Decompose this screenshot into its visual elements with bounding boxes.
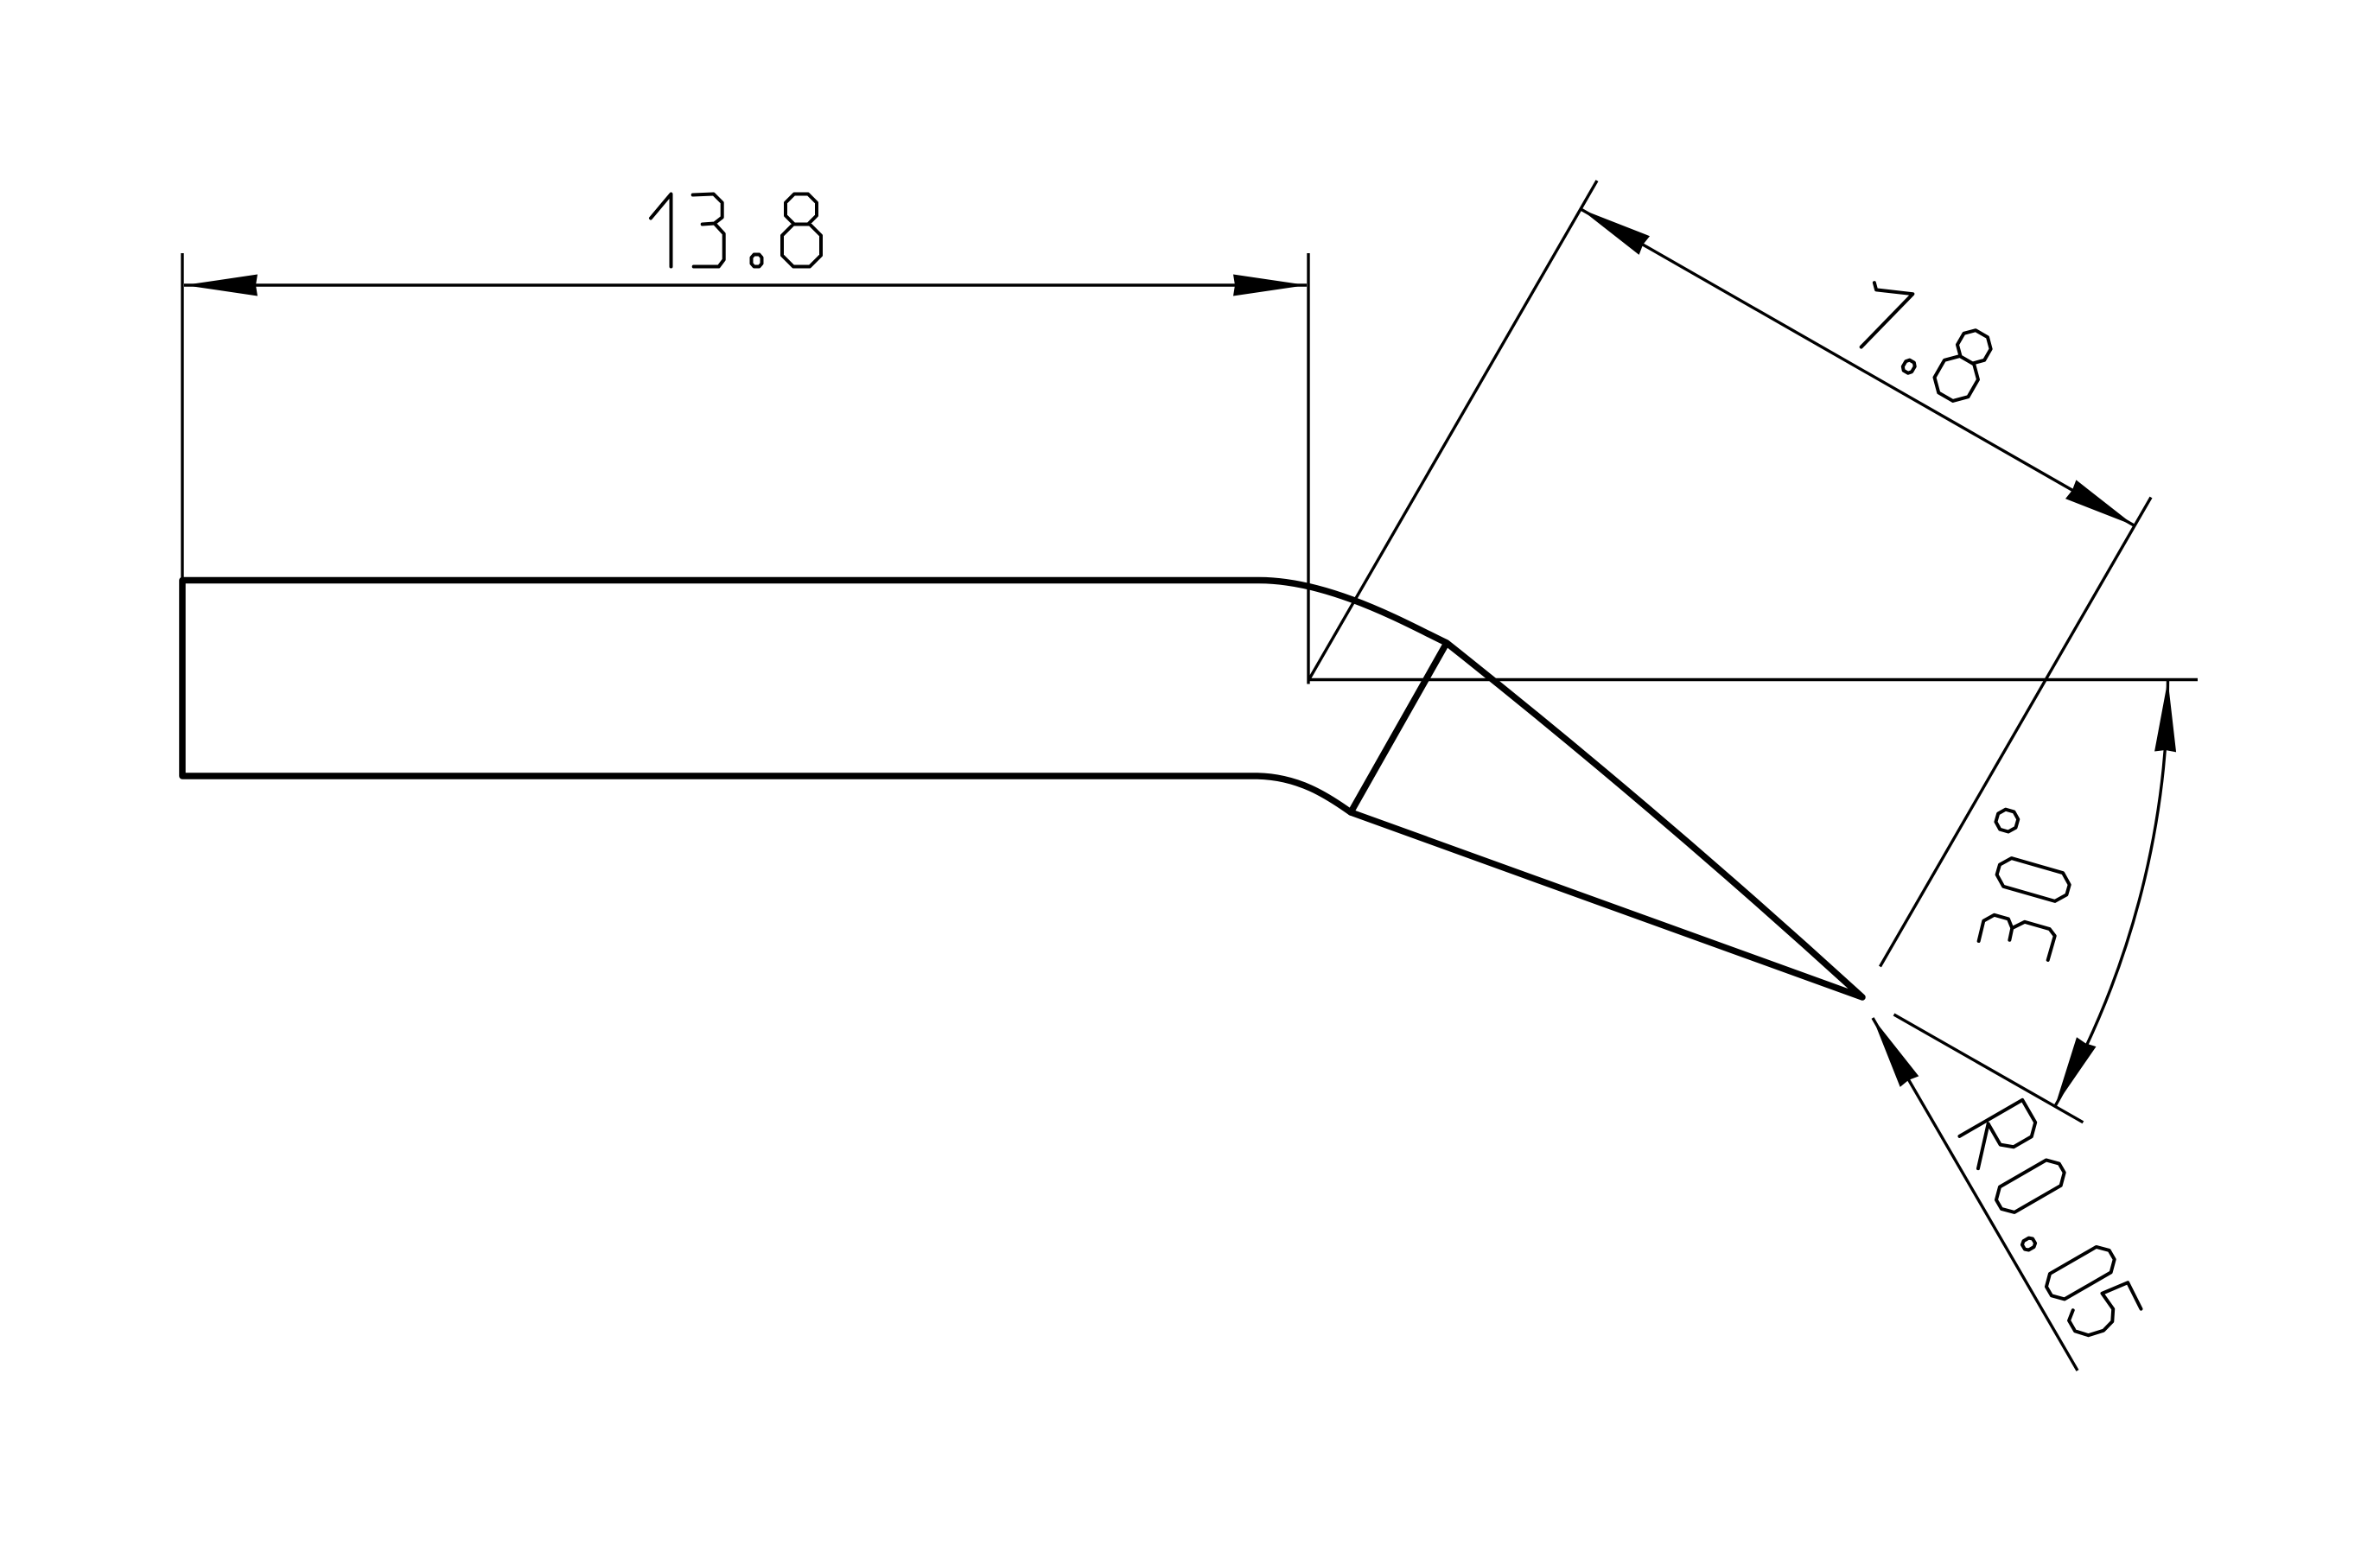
arrowhead 7.8 upper <box>1581 209 1650 255</box>
extension line left (13.8) <box>181 253 183 581</box>
30 deg ray through tip <box>1894 1015 2084 1123</box>
leader arrowhead <box>1873 1018 1919 1087</box>
arc arrowhead top <box>2154 680 2176 752</box>
arrowhead 13.8 right <box>1233 275 1307 296</box>
dimension text 7.8 <box>1842 275 1999 407</box>
soldering tip outline (shaft with bent conical tip) <box>182 581 1862 998</box>
extension line right (13.8) <box>1307 253 1309 684</box>
dimension text 13.8 <box>651 194 821 267</box>
arc arrowhead bottom <box>2055 1037 2097 1106</box>
leader line R0.05 <box>1873 1018 2078 1371</box>
arrowhead 7.8 lower <box>2065 480 2135 525</box>
extension line 2 (7.8, from tip) <box>1880 498 2152 967</box>
arrowhead 13.8 left <box>184 275 258 296</box>
radius text R0.05 <box>1959 1100 2142 1345</box>
dimension line 7.8 <box>1581 209 2135 526</box>
extension line 1 (7.8, from vertex) <box>1308 181 1597 681</box>
transverse line at cone base <box>1351 643 1447 812</box>
horizontal reference line <box>1308 678 2198 681</box>
dimension line 13.8 <box>184 283 1307 286</box>
angle dimension arc <box>2055 681 2168 1107</box>
angle text 30deg <box>1963 808 2084 961</box>
